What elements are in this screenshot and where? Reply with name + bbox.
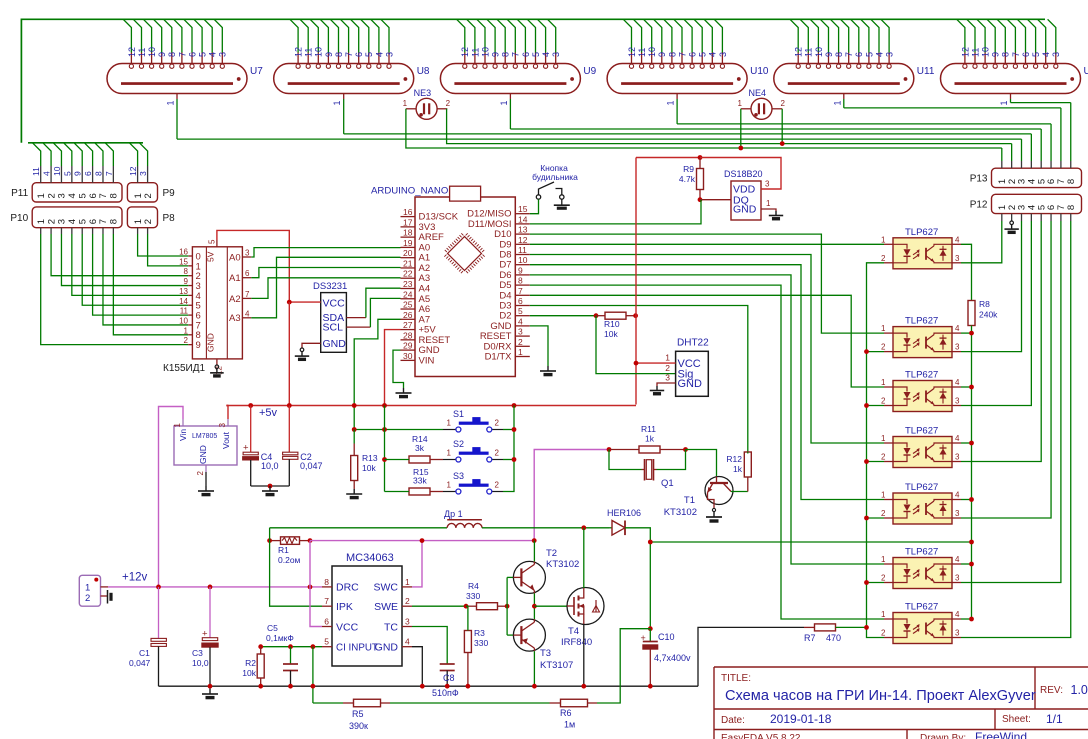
wire TLP6 pin3 to P12 pin7 [1060,214,1062,221]
junction HV out [648,540,653,545]
wire inductor line [270,527,447,529]
svg-text:Q1: Q1 [661,478,674,489]
pin 4 of MC34063 [402,646,412,648]
svg-text:TC: TC [384,621,398,633]
wire arduino GND pin4 to ground [530,326,548,366]
wire pin 10 of U8 to bus [310,19,318,52]
svg-text:8: 8 [1001,52,1011,57]
junction R3 top [464,604,469,609]
svg-text:U7: U7 [250,66,263,77]
svg-text:6: 6 [354,52,364,57]
wire pin 9 of U7 to bus [154,19,162,52]
svg-text:TLP627: TLP627 [905,227,938,238]
junction rail drop node [382,427,387,432]
resistor R3 [464,631,471,653]
svg-text:GND: GND [678,378,703,390]
resistor R14 [409,456,430,463]
svg-text:R2: R2 [245,658,256,668]
svg-text:GND: GND [375,642,399,654]
ground DHT22 [656,386,658,391]
wire R5 to R6 [390,702,550,704]
wire pin 5 of U12 to bus [1027,19,1035,52]
svg-text:0,047: 0,047 [129,658,151,668]
svg-text:1: 1 [881,324,886,333]
svg-text:DS18B20: DS18B20 [724,169,763,179]
pin 22 of ARDUINO_NANO [401,277,416,279]
svg-text:5: 5 [324,637,329,647]
IC MC34063 [332,566,402,666]
svg-text:5: 5 [1031,52,1041,57]
svg-text:4: 4 [245,309,250,318]
svg-text:2: 2 [46,219,57,224]
transistor T3 KT3107 [513,619,545,651]
svg-text:6: 6 [324,617,329,627]
wire P11 pin 7 to bus [102,166,104,183]
svg-text:3: 3 [955,509,960,518]
wire pin 3 of U11 to bus [881,19,889,52]
svg-text:12: 12 [518,235,528,245]
wire pin 4 of U10 to bus [704,19,712,52]
pin 20 of ARDUINO_NANO [401,257,416,259]
svg-text:A0: A0 [229,252,241,263]
svg-text:1: 1 [832,100,842,105]
junction rail C4 [248,403,253,408]
pin 1 of ARDUINO_NANO [515,356,530,358]
svg-text:2: 2 [881,453,886,462]
wire TC to C8 [412,627,447,664]
svg-text:14: 14 [518,214,528,224]
svg-text:+5v: +5v [259,407,278,419]
wire K155 A3 to A1 [251,257,400,318]
svg-text:VCC: VCC [323,298,346,310]
svg-text:1k: 1k [733,464,743,474]
junction SWC T2 collector [532,538,537,543]
svg-text:9: 9 [196,340,201,351]
svg-text:9: 9 [518,265,523,275]
wire gate [534,605,567,607]
svg-text:5: 5 [698,52,708,57]
wire pin 8 of U12 to bus [997,19,1005,52]
svg-text:DHT22: DHT22 [677,338,709,349]
junction TLP5 pin4 [969,497,974,502]
svg-text:T2: T2 [546,548,557,559]
svg-text:4.7k: 4.7k [679,174,696,184]
pin 1 GND of DS18B20 [761,209,776,211]
svg-text:5: 5 [208,239,217,244]
wire P11 pin 8 to bus [112,166,114,183]
svg-text:10: 10 [518,255,528,265]
wire D9 to TLP1 pin1 [530,243,884,245]
svg-text:NE4: NE4 [749,88,767,98]
junction C5 top [288,644,293,649]
pin 7 of K155ID1 [242,297,251,299]
svg-text:11: 11 [31,167,41,176]
svg-text:510пФ: 510пФ [432,688,459,698]
svg-text:2: 2 [881,254,886,263]
optocoupler TLP627 #1 [884,238,961,269]
wire pin 9 of U8 to bus [320,19,328,52]
svg-text:P13: P13 [970,173,988,184]
svg-text:1: 1 [881,491,886,500]
svg-text:23: 23 [403,279,413,289]
junction DHT22 VCC [634,361,639,366]
optocoupler TLP627 #3 [884,381,961,412]
svg-text:Date:: Date: [721,715,745,726]
ground alarm button [561,199,563,204]
svg-text:1: 1 [881,378,886,387]
pin 2 of MC34063 [402,605,412,607]
wire P10 pin 1 to K155 [40,228,42,234]
svg-text:S1: S1 [453,409,464,419]
wire R13 from node [353,430,355,444]
optocoupler TLP627 #4 [884,437,961,468]
svg-text:6: 6 [518,296,523,306]
wire P13 pin 3 up [1021,161,1023,168]
svg-text:2: 2 [85,593,90,604]
IC K155ID1 [192,247,242,359]
junction rail R1/VCC [308,585,313,590]
junction R1 left [267,538,272,543]
wire P13 pin 6 up [1050,161,1052,168]
svg-text:4: 4 [42,171,52,176]
wire R7 ground leg [698,627,804,686]
wire TLP3 pin2 [867,405,885,407]
wire cathode bus top [21,19,1045,143]
nixie tube U12 [941,64,1081,94]
svg-text:6: 6 [88,219,99,224]
pin 3 of K155ID1 [242,256,251,258]
wire NE3 pin2 line to P13 pin2 [447,109,1012,144]
wire GND pin29 to ground [393,350,404,388]
svg-text:C10: C10 [658,632,675,642]
svg-text:C3: C3 [192,648,203,658]
connector P10 [32,207,122,228]
svg-text:3: 3 [57,193,68,198]
wire D4 to TLP3 pin1 [530,295,884,387]
pin 23 of ARDUINO_NANO [401,287,416,289]
svg-text:1: 1 [499,100,509,105]
optocoupler TLP627 #2 [884,327,961,358]
wire D2 to R10 [530,315,596,317]
wire pin 7 of U8 to bus [340,19,348,52]
IC DS18B20 [731,181,761,220]
svg-text:4: 4 [1041,52,1051,57]
pin 5 of ARDUINO_NANO [515,315,530,317]
svg-text:3: 3 [405,617,410,627]
svg-text:9: 9 [991,52,1001,57]
junction gnd T4 [581,684,586,689]
junction cap ground [268,484,273,489]
resistor R5 [354,699,381,707]
svg-text:8: 8 [184,267,189,276]
svg-text:R3: R3 [474,628,485,638]
svg-text:3: 3 [765,180,770,189]
ground DS18B20 [775,211,777,216]
wire K155 5V to +5v net [217,230,289,302]
wire P12 pin1 to TLP1 out [1001,214,1003,221]
svg-text:3: 3 [718,52,728,57]
svg-text:IPK: IPK [336,601,353,613]
junction rail A7 riser [352,403,357,408]
svg-text:2019-01-18: 2019-01-18 [770,712,832,726]
wire P8 pin1 to K155 in0 [137,228,139,234]
wire TLP5 pin2 [867,517,885,519]
svg-text:1/1: 1/1 [1046,712,1063,726]
wire pin 12 of U10 to bus [623,19,631,52]
pin 28 of ARDUINO_NANO [401,339,416,341]
wire pin 1 of U7 to anode line [176,94,178,100]
wire +5v top to R9 [636,157,700,159]
svg-text:TLP627: TLP627 [905,547,938,558]
svg-text:2: 2 [143,193,154,198]
svg-text:GND: GND [323,338,347,350]
svg-text:SWC: SWC [374,582,399,594]
svg-text:8: 8 [93,171,103,176]
junction C10 top [648,626,653,631]
connector P12 [992,194,1082,213]
wire pin 12 of U9 to bus [457,19,465,52]
svg-text:9: 9 [73,171,83,176]
svg-text:R10: R10 [604,319,620,329]
svg-text:TLP627: TLP627 [905,370,938,381]
svg-text:2: 2 [46,193,57,198]
junction gnd R5 riser [311,684,316,689]
nixie tube U7 [107,64,247,94]
svg-text:4: 4 [955,491,960,500]
wire SWE to R4 [412,605,466,607]
wire pin 6 of U8 to bus [351,19,359,52]
svg-text:T4: T4 [568,626,579,637]
svg-text:5: 5 [364,52,374,57]
wire pin 9 of U12 to bus [987,19,995,52]
wire pin 10 of U12 to bus [977,19,985,52]
connector +12v input [79,575,100,606]
wire TLP4 pin3 to P12 pin5 [1040,214,1042,221]
junction R11 right [683,447,688,452]
junction rail C2 [287,403,292,408]
svg-text:2: 2 [143,219,154,224]
wire cap ground link [251,485,290,487]
svg-text:12: 12 [960,47,970,57]
pin 14 of K155ID1 [188,304,192,306]
wire P10 pin 5 to K155 [81,228,83,234]
wire T4 drain [583,528,585,588]
svg-text:2: 2 [196,470,205,475]
svg-text:P12: P12 [970,199,988,210]
wire anode line U7 to P13 pin3 [177,138,1022,140]
svg-text:1: 1 [184,326,189,335]
wire pin 12 of U11 to bus [790,19,798,52]
transistor T4 IRF840 mosfet [567,588,604,625]
svg-text:12: 12 [794,47,804,57]
junction gate node [532,604,537,609]
nixie tube U11 [774,64,914,94]
svg-text:11: 11 [304,48,314,57]
wire T1 collector to R12 [731,491,748,493]
junction TLP3 pin4 [969,385,974,390]
svg-text:4: 4 [874,52,884,57]
junction rail C1 [156,585,161,590]
pin 12 of ARDUINO_NANO [515,243,530,245]
resistor R1 [281,537,300,545]
svg-text:GND: GND [198,445,208,464]
svg-text:SCL: SCL [323,322,344,334]
pin 8 of ARDUINO_NANO [515,284,530,286]
wire pin 5 of U11 to bus [861,19,869,52]
svg-text:16: 16 [403,207,413,217]
svg-text:6: 6 [854,52,864,57]
capacitor C3 [209,587,211,638]
svg-text:11: 11 [804,48,814,57]
svg-text:10: 10 [147,47,157,57]
svg-text:4: 4 [374,52,384,57]
wire pin 3 of U8 to bus [381,19,389,52]
wire pin 4 of U12 to bus [1038,19,1046,52]
transistor T1 KT3102 [705,477,733,510]
junction gnd C10 [648,684,653,689]
wire TLP pin2 common column [867,263,885,628]
svg-text:1.0: 1.0 [1071,683,1088,697]
wire NE3 pin1 line to P13 pin1 [406,109,1002,148]
wire P11 pin 4 to bus [71,166,73,183]
wire pin 11 of U8 to bus [300,19,308,52]
wire pin 11 of U9 to bus [467,19,475,52]
pin 12 of K155ID1 [216,359,218,365]
pin 1 of K155ID1 [188,334,192,336]
svg-text:6: 6 [83,171,93,176]
svg-text:8: 8 [834,52,844,57]
svg-text:1: 1 [332,100,342,105]
wire P12 pin2 to ground [1011,214,1013,221]
wire pin 7 of U11 to bus [841,19,849,52]
svg-text:3: 3 [955,574,960,583]
svg-text:3: 3 [1051,52,1061,57]
wire DHT22 VCC [636,362,676,364]
wire pin 6 of U11 to bus [851,19,859,52]
svg-text:0.2ом: 0.2ом [278,555,301,565]
pin 9 of ARDUINO_NANO [515,274,530,276]
svg-text:10: 10 [480,47,490,57]
svg-text:U11: U11 [917,66,935,77]
svg-text:0,047: 0,047 [300,461,323,471]
wire TLP2 pin2 [867,351,885,353]
svg-text:17: 17 [403,217,413,227]
ground C3 [209,689,211,694]
svg-text:1: 1 [881,235,886,244]
svg-text:Vout: Vout [221,431,231,449]
svg-text:25: 25 [403,300,413,310]
pin 15 of K155ID1 [188,265,192,267]
junction TLP4 pin4 [969,441,974,446]
junction NE4 pin2 [780,141,785,146]
svg-text:1: 1 [166,100,176,105]
ground K155ID1 [215,365,219,369]
svg-text:30: 30 [403,351,413,361]
wire P11 pin 6 to bus [92,166,94,183]
wire TLP2 pin4 [961,332,972,334]
svg-text:U10: U10 [750,66,769,77]
svg-text:Sheet:: Sheet: [1002,714,1031,725]
wire TLP7 pin4 [961,618,972,620]
svg-text:VCC: VCC [336,621,359,633]
connector P8 [127,207,157,228]
junction gnd R3 [466,684,471,689]
svg-text:27: 27 [403,320,413,330]
wire T2 collector [533,541,535,562]
wire +12v rail [101,586,109,588]
wire K155 A0 to A0 [251,248,400,257]
svg-text:24: 24 [403,289,413,299]
svg-text:3: 3 [551,52,561,57]
pin 1 of MC34063 [402,586,412,588]
wire P9 pin 1 to bus [137,166,139,183]
svg-text:8: 8 [167,52,177,57]
pin 2 of K155ID1 [188,344,192,346]
svg-text:7: 7 [344,52,354,57]
svg-text:4: 4 [708,52,718,57]
svg-text:9: 9 [157,52,167,57]
svg-text:8: 8 [324,577,329,587]
wire P10 pin 7 to K155 [102,228,104,234]
svg-text:HER106: HER106 [607,508,641,518]
svg-text:4: 4 [405,637,410,647]
svg-text:ARDUINO_NANO: ARDUINO_NANO [371,186,448,197]
IC DS3231 [321,293,347,353]
ground R13 [353,489,355,494]
svg-text:2: 2 [665,363,670,373]
svg-text:15: 15 [179,257,188,266]
wire pin 11 of U10 to bus [633,19,641,52]
svg-text:1: 1 [766,199,771,208]
wire pin 1 of U12 to anode line [1010,94,1012,100]
wire TLP3 pin4 [961,386,972,388]
svg-text:1k: 1k [645,434,655,444]
wire D2 node to DHT22 Sig [596,316,676,374]
junction rail buttons [512,403,517,408]
svg-text:11: 11 [180,307,189,316]
svg-text:1: 1 [447,419,452,428]
wire MC GND to rail [412,647,422,687]
IC DHT22 [676,351,709,396]
svg-text:4: 4 [955,378,960,387]
svg-text:P11: P11 [11,188,28,199]
junction TLP6 pin4 [969,562,974,567]
svg-text:8: 8 [334,52,344,57]
svg-text:1м: 1м [564,720,575,730]
wire T2 emitter / T3 collector [533,593,535,619]
svg-text:GND: GND [733,204,757,216]
svg-text:3: 3 [955,343,960,352]
junction R7 right [864,625,869,630]
pin 6 of K155ID1 [242,277,251,279]
nixie tube U10 [607,64,747,94]
junction CI [311,644,316,649]
wire TLP6 pin4 [961,563,972,565]
svg-text:3: 3 [885,52,895,57]
svg-text:5: 5 [77,219,88,224]
wire rail to R14/R15 column [384,406,386,492]
svg-text:7: 7 [177,52,187,57]
push button S3 [443,479,503,494]
wire pin 4 of U7 to bus [204,19,212,52]
ground arduino left [403,388,405,393]
svg-text:3: 3 [665,373,670,383]
svg-text:26: 26 [403,310,413,320]
svg-text:28: 28 [403,330,413,340]
ground P12 [1010,221,1014,225]
push button S2 [443,447,503,462]
pin 15 of ARDUINO_NANO [515,213,530,215]
